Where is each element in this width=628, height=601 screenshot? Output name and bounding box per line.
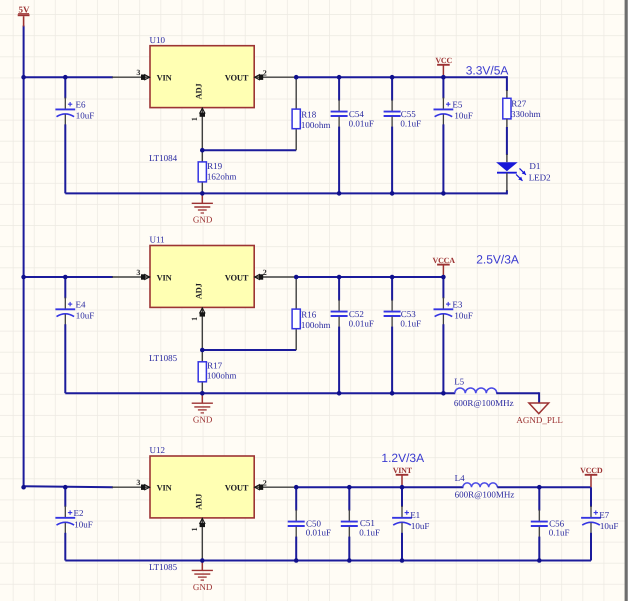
svg-text:0.1uF: 0.1uF (400, 319, 421, 329)
svg-text:VOUT: VOUT (225, 272, 249, 282)
svg-text:1: 1 (190, 527, 199, 531)
svg-text:2.5V/3A: 2.5V/3A (476, 253, 519, 267)
svg-text:100ohm: 100ohm (301, 120, 331, 130)
svg-text:L5: L5 (454, 377, 464, 387)
svg-text:E3: E3 (452, 299, 462, 309)
svg-text:LT1085: LT1085 (149, 562, 178, 572)
svg-text:ADJ: ADJ (194, 282, 204, 299)
svg-text:100ohm: 100ohm (301, 320, 331, 330)
svg-text:GND: GND (193, 215, 213, 225)
svg-text:GND: GND (193, 582, 213, 592)
svg-text:VCCD: VCCD (580, 466, 603, 475)
svg-text:1.2V/3A: 1.2V/3A (381, 451, 424, 465)
svg-text:E5: E5 (452, 100, 462, 110)
svg-text:1: 1 (190, 317, 199, 321)
svg-text:0.1uF: 0.1uF (400, 119, 421, 129)
svg-text:GND: GND (193, 415, 213, 425)
svg-text:R16: R16 (301, 309, 317, 319)
svg-text:3: 3 (136, 478, 140, 487)
svg-text:10uF: 10uF (600, 521, 619, 531)
svg-text:600R@100MHz: 600R@100MHz (455, 489, 515, 499)
svg-text:U10: U10 (150, 35, 166, 45)
svg-text:E2: E2 (74, 508, 84, 518)
svg-text:VIN: VIN (157, 272, 173, 282)
svg-text:C51: C51 (360, 518, 375, 528)
svg-text:2: 2 (263, 68, 267, 77)
svg-text:U12: U12 (150, 445, 166, 455)
svg-text:600R@100MHz: 600R@100MHz (454, 398, 514, 408)
svg-text:L4: L4 (455, 473, 465, 483)
svg-text:3.3V/5A: 3.3V/5A (466, 64, 509, 78)
svg-text:C52: C52 (349, 309, 364, 319)
svg-text:3: 3 (136, 268, 140, 277)
svg-text:U11: U11 (150, 235, 165, 245)
svg-text:R19: R19 (207, 161, 223, 171)
svg-text:10uF: 10uF (76, 311, 95, 321)
svg-text:0.01uF: 0.01uF (349, 319, 374, 329)
svg-text:E7: E7 (599, 510, 609, 520)
svg-text:10uF: 10uF (454, 111, 473, 121)
svg-text:C54: C54 (349, 109, 365, 119)
svg-text:VOUT: VOUT (225, 483, 249, 493)
svg-text:162ohm: 162ohm (207, 172, 237, 182)
svg-text:C55: C55 (401, 109, 417, 119)
svg-text:ADJ: ADJ (194, 493, 204, 510)
svg-text:E4: E4 (76, 300, 86, 310)
svg-text:10uF: 10uF (76, 111, 95, 121)
svg-text:LT1085: LT1085 (149, 353, 178, 363)
svg-text:2: 2 (263, 478, 267, 487)
svg-text:10uF: 10uF (454, 310, 473, 320)
svg-text:D1: D1 (529, 161, 540, 171)
svg-text:LED2: LED2 (529, 173, 551, 183)
svg-text:0.01uF: 0.01uF (306, 528, 331, 538)
svg-text:0.1uF: 0.1uF (359, 528, 380, 538)
svg-text:C53: C53 (401, 309, 417, 319)
svg-text:10uF: 10uF (74, 519, 93, 529)
svg-text:AGND_PLL: AGND_PLL (516, 415, 563, 425)
svg-text:VCC: VCC (435, 56, 452, 65)
svg-text:VIN: VIN (157, 483, 173, 493)
svg-text:VCCA: VCCA (433, 256, 456, 265)
svg-text:3: 3 (136, 68, 140, 77)
svg-text:R17: R17 (207, 360, 223, 370)
svg-text:E6: E6 (76, 100, 86, 110)
svg-text:2: 2 (263, 268, 267, 277)
svg-text:5V: 5V (19, 4, 31, 14)
svg-text:0.01uF: 0.01uF (349, 119, 374, 129)
svg-text:0.1uF: 0.1uF (549, 528, 570, 538)
svg-text:LT1084: LT1084 (149, 153, 178, 163)
svg-text:10uF: 10uF (411, 521, 430, 531)
svg-text:E1: E1 (410, 510, 420, 520)
svg-text:330ohm: 330ohm (511, 109, 541, 119)
svg-text:ADJ: ADJ (194, 83, 204, 100)
svg-text:VIN: VIN (157, 73, 173, 83)
svg-text:R27: R27 (511, 98, 527, 108)
svg-text:VOUT: VOUT (225, 73, 249, 83)
svg-text:VINT: VINT (393, 466, 413, 475)
svg-text:R18: R18 (301, 109, 317, 119)
svg-text:100ohm: 100ohm (207, 370, 237, 380)
svg-text:1: 1 (190, 117, 199, 121)
